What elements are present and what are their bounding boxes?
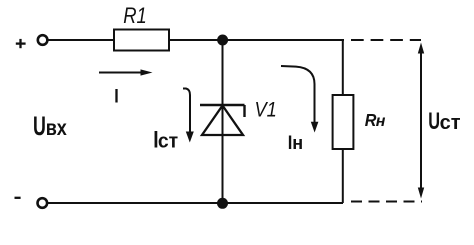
svg-text:н: н [292,133,303,153]
svg-text:U: U [428,108,440,135]
svg-text:V1: V1 [255,98,277,122]
svg-text:вх: вх [46,117,67,141]
svg-text:н: н [376,113,386,130]
svg-text:ст: ст [158,130,179,152]
svg-text:U: U [33,110,46,141]
svg-text:I: I [114,85,118,107]
svg-text:R1: R1 [123,3,147,28]
svg-text:ст: ст [440,112,461,134]
